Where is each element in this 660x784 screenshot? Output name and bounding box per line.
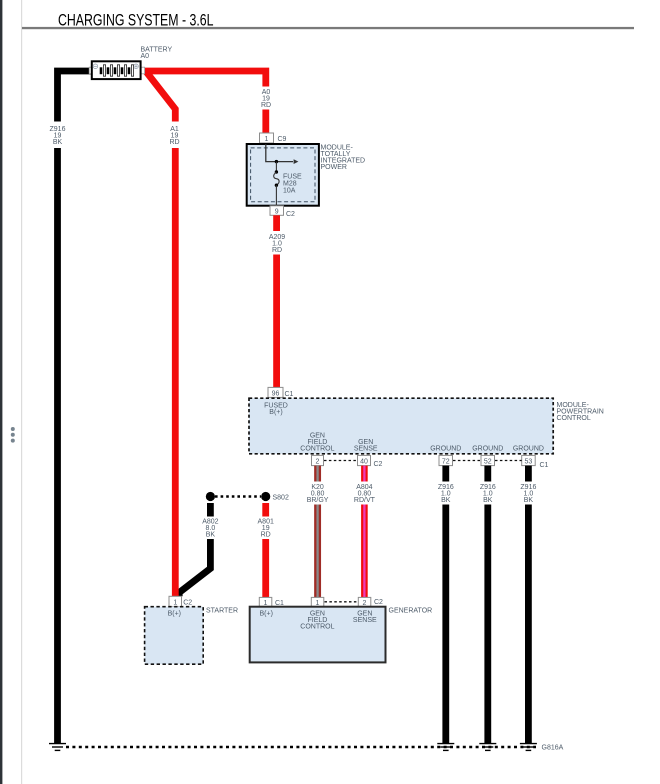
svg-text:10A: 10A xyxy=(283,188,296,195)
svg-text:C2: C2 xyxy=(286,211,295,218)
wire A0 19 RD (battery to TIPM C9) xyxy=(145,71,266,133)
dotted connector link pin2-pin40 xyxy=(324,460,358,462)
connector pin 96 C1 xyxy=(268,387,294,398)
svg-text:C9: C9 xyxy=(278,136,287,143)
label FUSE M28 10A xyxy=(283,174,302,195)
svg-text:SENSE: SENSE xyxy=(354,446,378,453)
module TIPM (Totally Integrated Power) xyxy=(247,144,319,206)
wire Z916 1.0 BK (pin 52 to ground) xyxy=(484,466,491,743)
svg-text:C2: C2 xyxy=(374,461,383,468)
svg-text:72: 72 xyxy=(442,459,450,466)
wire A1 19 RD (battery to starter) xyxy=(146,72,175,597)
label A0 19 RD xyxy=(261,89,271,109)
connector pin 2 xyxy=(312,455,324,465)
svg-text:BR/GY: BR/GY xyxy=(307,497,329,504)
node GEN SENSE (generator) xyxy=(353,610,377,624)
TIPM internal wire with arrow xyxy=(266,144,299,174)
connector pin 40 C2 xyxy=(358,455,383,468)
connector pin 1 (generator field) xyxy=(311,597,324,607)
node GEN FIELD CONTROL (PCM) xyxy=(300,433,334,453)
title rule xyxy=(22,27,634,29)
node GEN SENSE (PCM) xyxy=(354,439,378,453)
svg-text:SENSE: SENSE xyxy=(353,617,377,624)
svg-text:C1: C1 xyxy=(285,391,294,398)
svg-text:BK: BK xyxy=(53,139,63,146)
svg-text:C2: C2 xyxy=(374,599,383,606)
wire K20 0.80 BR/GY (PCM to generator field) xyxy=(314,466,321,598)
label MODULE-POWERTRAIN CONTROL xyxy=(557,402,604,422)
svg-text:9: 9 xyxy=(275,209,279,216)
wire A802 8.0 BK (splice to starter) xyxy=(179,503,210,596)
label A209 1.0 RD xyxy=(269,234,285,254)
connector pin 53 C1 xyxy=(522,455,549,469)
svg-text:CONTROL: CONTROL xyxy=(300,446,334,453)
connector pin 2 C2 (generator sense) xyxy=(358,597,383,607)
dotted connector link pin52-pin53 xyxy=(495,460,522,462)
label MODULE-TOTALLY INTEGRATED POWER xyxy=(321,145,366,172)
svg-text:RD: RD xyxy=(272,247,282,254)
svg-text:CONTROL: CONTROL xyxy=(300,623,334,630)
splice S802 xyxy=(206,492,289,502)
svg-text:RD: RD xyxy=(261,102,271,109)
svg-text:POWER: POWER xyxy=(321,164,347,171)
svg-text:BK: BK xyxy=(524,497,534,504)
label A1 19 RD xyxy=(169,126,179,146)
svg-text:B(+): B(+) xyxy=(259,610,272,617)
ground (battery, left) xyxy=(49,744,66,751)
svg-text:2: 2 xyxy=(316,459,320,466)
svg-text:B(+): B(+) xyxy=(269,409,282,416)
label A804 0.80 RD/VT xyxy=(354,484,376,504)
starter xyxy=(145,607,204,665)
svg-text:GROUND: GROUND xyxy=(430,446,461,453)
svg-text:CONTROL: CONTROL xyxy=(557,415,591,422)
wire Z916 1.0 BK (pin 72 to ground) xyxy=(442,466,449,743)
label Z916 19 BK xyxy=(50,126,66,146)
fuse M28 10A xyxy=(274,172,279,205)
label Z916 1.0 BK xyxy=(520,484,536,504)
ground bus dotted wire xyxy=(66,746,536,749)
svg-text:STARTER: STARTER xyxy=(206,608,238,615)
svg-text:BK: BK xyxy=(441,497,451,504)
ground (pin 52 wire) xyxy=(479,744,496,751)
svg-text:A0: A0 xyxy=(141,53,150,60)
svg-text:40: 40 xyxy=(360,459,368,466)
wire A804 0.80 RD/VT (PCM to generator sense) xyxy=(361,466,368,598)
svg-text:RD/VT: RD/VT xyxy=(354,497,376,504)
svg-text:RD: RD xyxy=(169,139,179,146)
label K20 0.80 BR/GY xyxy=(307,484,329,504)
sidebar strip xyxy=(0,0,2,784)
connector pin 1 C1 (generator B+) xyxy=(259,597,284,607)
label BATTERY A0 xyxy=(141,47,173,61)
svg-text:C2: C2 xyxy=(183,600,192,607)
svg-text:B(+): B(+) xyxy=(168,610,181,617)
wire A209 1.0 RD (TIPM to PCM) xyxy=(273,215,280,387)
svg-text:1: 1 xyxy=(265,136,269,143)
svg-text:RD: RD xyxy=(261,532,271,539)
node GROUND pins labels xyxy=(430,446,544,453)
ground (pin 72 wire) xyxy=(437,744,454,751)
label A801 19 RD xyxy=(258,519,274,539)
svg-text:C1: C1 xyxy=(540,462,549,469)
sidebar drag dots xyxy=(11,427,15,443)
svg-text:GROUND: GROUND xyxy=(513,446,544,453)
node FUSED B(+) xyxy=(264,403,288,417)
generator xyxy=(250,607,386,663)
svg-text:96: 96 xyxy=(272,390,280,397)
svg-text:1: 1 xyxy=(173,600,177,607)
ground G816A (pin 53 wire) xyxy=(520,744,564,752)
svg-text:M28: M28 xyxy=(283,181,297,188)
label A802 8.0 BK xyxy=(202,519,218,539)
svg-text:BK: BK xyxy=(206,532,216,539)
connector pin 72 xyxy=(439,455,453,465)
wire Z916 1.0 BK (pin 53 to ground) xyxy=(525,466,532,743)
svg-text:GENERATOR: GENERATOR xyxy=(389,608,433,615)
label Z916 1.0 BK xyxy=(480,484,496,504)
connector pin 1 C9 xyxy=(260,133,287,143)
svg-text:GROUND: GROUND xyxy=(472,446,503,453)
dotted connector link pin72-pin52 xyxy=(453,460,481,462)
dotted connector link gen pin1-pin2 xyxy=(325,601,359,603)
connector pin 1 C2 (starter) xyxy=(169,596,192,606)
svg-text:CHARGING SYSTEM - 3.6L: CHARGING SYSTEM - 3.6L xyxy=(58,11,214,29)
wire Z916 battery ground (black, left) xyxy=(58,71,92,743)
node GEN FIELD CONTROL (generator) xyxy=(300,610,334,630)
svg-text:S802: S802 xyxy=(273,495,289,502)
connector pin 52 xyxy=(481,455,495,465)
svg-text:FUSE: FUSE xyxy=(283,174,302,181)
svg-text:BK: BK xyxy=(483,497,493,504)
module PCM (Powertrain Control) xyxy=(249,398,553,454)
connector pin 9 C2 xyxy=(270,206,295,218)
label Z916 1.0 BK xyxy=(438,484,454,504)
svg-text:52: 52 xyxy=(484,459,492,466)
wire A801 19 RD (splice to generator B+) xyxy=(262,503,269,597)
svg-text:G816A: G816A xyxy=(542,745,564,752)
battery A0 xyxy=(89,61,144,79)
panel divider line xyxy=(21,0,22,784)
svg-text:53: 53 xyxy=(525,459,533,466)
